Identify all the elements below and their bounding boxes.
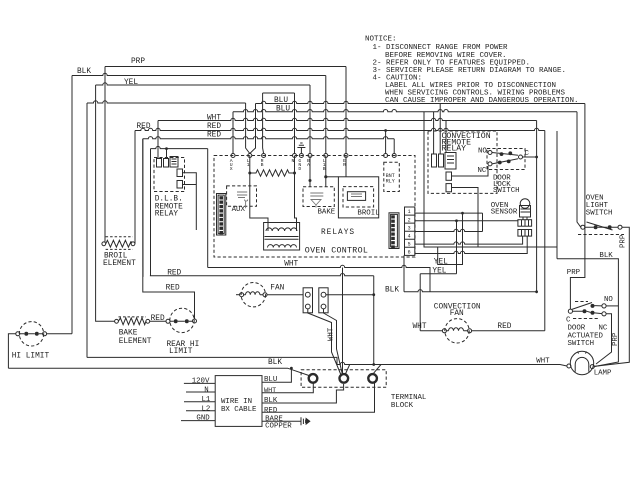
wire drop ER: [345, 67, 347, 154]
wire yel lower: [420, 274, 456, 331]
svg-text:GND: GND: [298, 158, 301, 172]
wire into control left: [151, 146, 208, 148]
terminal N: [293, 154, 297, 158]
svg-text:FAN: FAN: [450, 310, 464, 318]
wire lower left horizontal: [87, 357, 567, 366]
right connector strip: [389, 213, 399, 249]
wire NC right down: [596, 314, 612, 364]
door lock switch pole 1: [488, 151, 492, 155]
wire fan left stub: [236, 294, 240, 296]
door lock switch pole 2: [488, 162, 492, 166]
svg-text:BAKE: BAKE: [318, 209, 336, 217]
terminal bolt 3: [368, 374, 377, 383]
svg-text:FAN: FAN: [270, 284, 284, 292]
wire conv fan left WHT: [420, 330, 442, 332]
svg-text:5: 5: [408, 242, 411, 248]
wire BA into bake: [309, 156, 311, 187]
door lock C terminal: [519, 155, 523, 159]
wire dlb feed 2: [166, 149, 168, 159]
svg-text:BLK: BLK: [599, 252, 613, 260]
ground symbol: [297, 143, 305, 154]
wire drop RB: [263, 93, 264, 154]
wire drop BNT2: [393, 139, 395, 154]
svg-text:BROIL: BROIL: [357, 210, 379, 218]
svg-text:RED: RED: [207, 123, 221, 131]
terminal GND: [299, 154, 303, 158]
wire vertical BLU left: [86, 103, 88, 357]
svg-text:SWITCH: SWITCH: [493, 187, 520, 195]
svg-text:WHT: WHT: [536, 358, 550, 366]
wire dlb contacts right: [183, 173, 197, 230]
svg-text:L2: L2: [202, 405, 211, 413]
wire PRP top: [105, 66, 346, 68]
svg-text:ELEMENT: ELEMENT: [103, 260, 136, 268]
svg-text:COPPER: COPPER: [265, 422, 292, 430]
svg-text:SWITCH: SWITCH: [586, 209, 613, 217]
wire YEL top: [96, 83, 310, 85]
svg-text:WIRE IN: WIRE IN: [221, 398, 252, 406]
wire BLU upper: [87, 101, 246, 103]
oven sensor: [520, 199, 530, 209]
svg-text:L1: L1: [202, 396, 211, 404]
svg-text:RED: RED: [151, 315, 165, 323]
sensor connector upper: [518, 220, 532, 227]
transformer: [264, 223, 300, 251]
svg-text:RED: RED: [497, 323, 511, 331]
wire vertical RED right: [544, 131, 546, 331]
wire in bx cable box: [215, 376, 262, 427]
bake element resistor: [115, 319, 119, 323]
dlb coil terminal 1: [157, 159, 162, 168]
wire red mid: [150, 274, 374, 276]
svg-text:D.L.B.: D.L.B.: [155, 195, 183, 203]
svg-text:AUX: AUX: [232, 206, 246, 214]
svg-text:OVEN CONTROL: OVEN CONTROL: [305, 246, 368, 255]
oven control outer corner: [207, 149, 209, 268]
terminal AUX: [231, 154, 235, 158]
conv relay coil terminal 2: [439, 154, 444, 167]
wire BLK top: [72, 73, 326, 75]
svg-text:120V: 120V: [192, 377, 210, 385]
svg-text:RED: RED: [264, 407, 278, 415]
svg-text:RED: RED: [166, 284, 180, 292]
svg-text:WHT: WHT: [413, 323, 427, 331]
wire WHT: [158, 118, 537, 120]
svg-text:BLOCK: BLOCK: [391, 402, 414, 410]
dlb relay coil: [170, 157, 178, 168]
fan connector plug: [303, 288, 312, 313]
svg-text:RED: RED: [207, 132, 221, 140]
svg-text:YEL: YEL: [432, 268, 446, 276]
door lock switch box: [487, 149, 525, 170]
svg-text:AUX: AUX: [230, 158, 233, 172]
svg-text:BLK: BLK: [77, 68, 91, 76]
wire vertical PRP left: [104, 67, 106, 242]
svg-text:NC: NC: [478, 167, 487, 175]
svg-text:GND: GND: [196, 415, 210, 423]
svg-text:WHT: WHT: [328, 327, 336, 341]
conv relay contact 1: [446, 172, 452, 180]
svg-text:SWITCH: SWITCH: [568, 340, 595, 348]
wire hi-limit right: [47, 333, 72, 335]
svg-text:1- DISCONNECT RANGE FROM POWER: 1- DISCONNECT RANGE FROM POWER: [373, 44, 509, 52]
svg-text:WHT: WHT: [264, 387, 276, 395]
door actuated switch: [568, 309, 572, 313]
terminal ER: [344, 154, 348, 158]
wire vertical WHT right: [536, 121, 538, 292]
wire plug diag to terminal 2: [308, 309, 341, 375]
wire vertical jumper right: [584, 104, 586, 259]
wire pin1 right: [415, 213, 483, 231]
wire RED lower: [143, 137, 394, 139]
svg-text:NC: NC: [599, 325, 608, 333]
wire conv fan right RED: [472, 330, 545, 332]
terminal BNT1: [384, 154, 388, 158]
svg-text:RLY: RLY: [386, 179, 395, 185]
svg-text:RED: RED: [167, 269, 181, 277]
svg-text:C: C: [525, 150, 530, 158]
conv relay contact 2: [446, 184, 452, 192]
svg-text:YEL: YEL: [124, 79, 138, 87]
wire broil right up: [134, 131, 136, 244]
svg-text:NO: NO: [478, 148, 487, 156]
wire drop BA: [309, 85, 311, 154]
terminal RB: [262, 154, 266, 158]
left connector strip: [217, 194, 226, 236]
conv relay coil: [445, 153, 456, 170]
svg-text:RELAYS: RELAYS: [321, 229, 355, 237]
wire drop L1 with V: [246, 103, 256, 154]
fan motor: [241, 283, 265, 307]
svg-text:BLU: BLU: [274, 97, 288, 105]
svg-text:DOOR: DOOR: [568, 325, 586, 333]
wire N to transformer: [295, 156, 297, 223]
aux relay: [227, 186, 257, 206]
svg-text:LIMIT: LIMIT: [169, 348, 193, 356]
svg-text:RB: RB: [261, 158, 264, 168]
broil relay: [338, 177, 378, 218]
wire drop N: [294, 93, 296, 154]
broil element resistor: [102, 242, 106, 246]
svg-text:PRP: PRP: [612, 332, 620, 346]
svg-text:PRP: PRP: [567, 269, 581, 277]
wire drop BNT1: [385, 131, 387, 154]
svg-text:BLU: BLU: [276, 106, 290, 114]
wire hi-limit left: [8, 334, 15, 368]
wire PRP to door switch C: [570, 259, 585, 309]
wire pin6 right yel: [438, 213, 463, 274]
enclosure box right: [424, 112, 557, 259]
svg-text:PRP: PRP: [619, 234, 627, 248]
wire L1B junction: [325, 156, 327, 187]
svg-text:BLK: BLK: [268, 359, 282, 367]
wire BLK to door switch: [557, 259, 618, 367]
bake relay: [303, 187, 334, 207]
dlb coil terminal 2: [164, 159, 169, 168]
svg-text:NO: NO: [604, 296, 613, 304]
bnt rly box: [384, 162, 400, 191]
svg-text:SENSOR: SENSOR: [491, 209, 518, 217]
wire vertical BLU2 right: [577, 112, 581, 228]
svg-text:C: C: [566, 316, 571, 324]
wire mid vertical to terminal2: [343, 268, 350, 375]
svg-text:LAMP: LAMP: [594, 369, 612, 377]
svg-text:WHT: WHT: [207, 115, 221, 123]
terminal bolt 2: [340, 374, 349, 383]
wire pin5 right: [415, 236, 527, 253]
svg-text:NOTICE:: NOTICE:: [365, 36, 397, 44]
wire receptacle right: [326, 294, 374, 296]
svg-text:BAKE: BAKE: [119, 330, 138, 338]
wire contact1 to door lock: [452, 166, 489, 176]
svg-text:BLK: BLK: [385, 286, 399, 294]
hi-limit switch: [19, 322, 43, 346]
svg-text:HI LIMIT: HI LIMIT: [12, 353, 50, 361]
wire fan right: [267, 294, 303, 296]
wire N jumper: [263, 92, 295, 94]
terminal L1B: [324, 154, 328, 158]
svg-text:RED: RED: [137, 123, 151, 131]
dlb contact lower: [177, 181, 183, 189]
wire drop L1B: [325, 76, 327, 154]
pin header stack: [405, 207, 415, 255]
wire BLU right run: [256, 101, 585, 103]
convection fan: [445, 319, 469, 343]
wire ER into broil: [345, 156, 347, 177]
wire receptacle diag to terminal 2: [324, 309, 343, 374]
D.L.B. remote relay box: [154, 158, 185, 192]
svg-text:N: N: [204, 386, 208, 394]
wire BLU lower: [233, 109, 577, 111]
bare copper ground symbol: [301, 417, 306, 425]
wire sensor to connector: [523, 217, 527, 220]
wire pin3 right: [415, 229, 483, 231]
wire pin2 right: [415, 220, 518, 222]
svg-text:CAN CAUSE IMPROPER AND DANGERO: CAN CAUSE IMPROPER AND DANGEROUS OPERATI…: [385, 97, 579, 105]
wire BLK bottom: [8, 368, 309, 375]
wire L1 to transformer: [250, 156, 268, 223]
wire blk mid vertical: [403, 255, 405, 291]
wire dlb feed 1: [157, 121, 159, 159]
rear hi-limit switch: [170, 308, 194, 332]
terminal BA: [308, 154, 312, 158]
wire conv relay feeds: [434, 104, 446, 155]
convection remote relay box: [428, 131, 497, 193]
sensor connector lower: [518, 230, 532, 237]
dlb contact upper: [177, 169, 183, 177]
terminal bolt 1: [309, 374, 318, 383]
wire drop AUX: [232, 112, 234, 154]
svg-text:ELEMENT: ELEMENT: [119, 338, 152, 346]
conv relay coil terminal 1: [432, 154, 437, 167]
fan connector receptacle: [319, 288, 328, 313]
terminal block box: [301, 370, 386, 388]
svg-text:4: 4: [408, 233, 411, 239]
wire vertical YEL left: [96, 85, 115, 321]
control resistor: [250, 170, 295, 176]
terminal L1: [248, 154, 252, 158]
svg-text:1: 1: [408, 209, 411, 215]
svg-text:6: 6: [408, 250, 411, 256]
svg-text:PRP: PRP: [131, 58, 145, 66]
svg-text:BLK: BLK: [264, 397, 278, 405]
wire pin4 right: [415, 236, 523, 244]
oven control box: [214, 156, 415, 258]
lamp: [570, 351, 593, 374]
svg-text:WHT: WHT: [284, 260, 298, 268]
svg-text:BX CABLE: BX CABLE: [221, 406, 257, 414]
svg-text:RELAY: RELAY: [155, 211, 179, 219]
wire BLK mid horizontal: [404, 290, 537, 292]
terminal BNT2: [392, 154, 396, 158]
svg-text:YEL: YEL: [434, 258, 448, 266]
svg-text:2: 2: [408, 217, 411, 223]
wire rear-hi right up: [143, 139, 195, 319]
wire light switch right down: [594, 227, 629, 366]
wire mid vertical to terminal3: [374, 276, 381, 374]
wire vertical BLK left: [71, 76, 73, 334]
wire contact2 down: [452, 188, 479, 248]
oven light switch: [581, 225, 585, 229]
wire RED upper: [135, 128, 545, 130]
svg-text:3: 3: [408, 225, 411, 231]
